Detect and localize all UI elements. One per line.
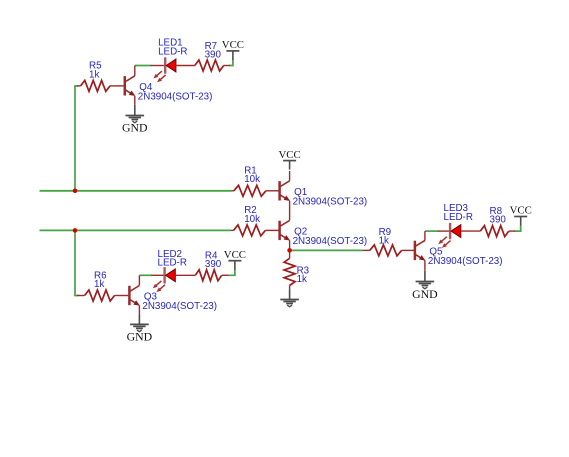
svg-text:VCC: VCC — [510, 205, 532, 217]
svg-text:LED-R: LED-R — [444, 212, 473, 223]
svg-text:GND: GND — [412, 287, 438, 301]
svg-text:1k: 1k — [379, 236, 389, 247]
svg-text:VCC: VCC — [224, 249, 246, 261]
svg-text:GND: GND — [122, 121, 148, 135]
svg-text:VCC: VCC — [278, 149, 300, 161]
svg-text:2N3904(SOT-23): 2N3904(SOT-23) — [428, 256, 503, 267]
svg-text:1k: 1k — [297, 274, 307, 285]
svg-text:1k: 1k — [94, 279, 104, 290]
svg-text:2N3904(SOT-23): 2N3904(SOT-23) — [293, 196, 368, 207]
svg-text:LED-R: LED-R — [158, 46, 187, 57]
svg-text:1k: 1k — [89, 69, 99, 80]
svg-text:2N3904(SOT-23): 2N3904(SOT-23) — [142, 301, 217, 312]
svg-text:LED-R: LED-R — [158, 258, 187, 269]
svg-text:390: 390 — [205, 50, 222, 61]
svg-text:10k: 10k — [244, 174, 260, 185]
svg-text:2N3904(SOT-23): 2N3904(SOT-23) — [138, 91, 213, 102]
svg-text:10k: 10k — [244, 214, 260, 225]
svg-text:VCC: VCC — [222, 39, 244, 51]
svg-text:390: 390 — [490, 215, 507, 226]
svg-text:GND: GND — [127, 330, 153, 344]
svg-text:390: 390 — [205, 259, 222, 270]
svg-text:2N3904(SOT-23): 2N3904(SOT-23) — [293, 236, 368, 247]
